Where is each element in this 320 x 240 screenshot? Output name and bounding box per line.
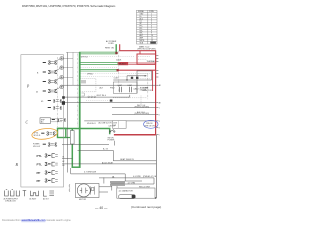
svg-text:POWER: POWER (108, 140, 115, 142)
pin numbers right of trunk (159, 84, 161, 137)
svg-text:3: 3 (45, 171, 48, 177)
dark component marks (62, 96, 65, 99)
connector row y81.5 (43, 78, 60, 86)
svg-text:3: 3 (54, 142, 57, 148)
svg-text:0.047: 0.047 (118, 85, 123, 87)
svg-text:(PWB AC 4-7 OH: (PWB AC 4-7 OH (143, 175, 157, 178)
capacitor capsule (119, 195, 136, 199)
wires circle to bus (63, 52, 79, 85)
wire black bus y85 (62, 84, 156, 86)
connector pin table (137, 10, 158, 44)
wire red trunk vertical (155, 50, 157, 135)
svg-text:SW: SW (113, 125, 116, 127)
PWB main board outline (21, 55, 64, 187)
wire red thick to switch (114, 134, 156, 136)
svg-text:FIRST ON: FIRST ON (105, 48, 114, 50)
svg-text:0.047: 0.047 (128, 85, 133, 87)
resistor on green line (70, 131, 74, 145)
dashed drop (113, 96, 147, 105)
svg-text:3: 3 (54, 70, 57, 76)
wire photocoupler line 1 (112, 107, 156, 109)
red label block (118, 62, 128, 65)
svg-text:4P-DL-07: 4P-DL-07 (33, 146, 40, 148)
svg-text:B+ 5V: B+ 5V (103, 149, 109, 151)
bottom component row (5, 190, 54, 197)
left small connector glyphs (68, 184, 71, 192)
small rows group2 (48, 99, 63, 105)
wires motor to transformer (99, 186, 112, 188)
svg-text:3: 3 (48, 142, 51, 148)
svg-text:3: 3 (53, 99, 56, 105)
wire green horizontal to power switch (57, 129, 109, 135)
dark cell last row (150, 41, 156, 43)
wire y158 (62, 157, 72, 159)
svg-text:1: 1 (159, 108, 160, 110)
svg-text:THERMAL: THERMAL (147, 60, 156, 63)
blue highlight ellipse (144, 120, 158, 128)
connector row y91.0 (43, 88, 60, 96)
AC noise killer box (113, 82, 137, 93)
svg-text:3: 3 (59, 106, 62, 112)
connector row y62.5 (43, 59, 60, 67)
svg-text:3: 3 (54, 61, 57, 67)
svg-text:45: 45 (36, 92, 38, 94)
transformer leads (111, 186, 113, 191)
wire green branch top (79, 52, 117, 54)
motor M1 (77, 184, 90, 197)
pin ticks on red trunk (156, 56, 158, 135)
power switch S1 (109, 130, 115, 133)
wire photocoupler line 2 (112, 114, 156, 116)
svg-text:3: 3 (45, 154, 48, 160)
svg-text:(Continued next page): (Continued next page) (131, 205, 161, 209)
svg-text:3: 3 (54, 89, 57, 95)
svg-text:4-BLU: 4-BLU (133, 88, 139, 90)
transformer T1 winding (111, 181, 125, 186)
relay box under red line (137, 71, 152, 80)
svg-text:AR-BLK: AR-BLK (119, 63, 127, 66)
svg-text:DNP7050, RM7101, UNP7050, PXM7: DNP7050, RM7101, UNP7050, PXM7070, PXM70… (22, 4, 116, 8)
svg-text:GB AT 7000/0.5V: GB AT 7000/0.5V (120, 158, 135, 161)
wire red drop below (152, 70, 154, 91)
harness dashed wires (81, 56, 148, 76)
svg-text:AC LINE 0-8 OV: AC LINE 0-8 OV (99, 122, 113, 125)
line y120.9 (84, 120, 112, 122)
ERP box row (40, 118, 51, 124)
bottom right box (117, 188, 155, 198)
svg-text:CAPACITOR: CAPACITOR (142, 89, 152, 92)
motor sub-compartments (91, 186, 95, 194)
svg-text:3: 3 (45, 179, 48, 185)
wire green trunk vertical (79, 52, 81, 168)
svg-text:4.7 OHM 10W: 4.7 OHM 10W (84, 171, 96, 173)
red thermal box 1 (137, 54, 156, 64)
svg-text:PTL: PTL (37, 163, 43, 167)
svg-text:5: 5 (159, 135, 160, 137)
wire black bus y102 (62, 101, 156, 103)
svg-text:PRI 2: PRI 2 (110, 87, 115, 89)
svg-text:(PHOTOCOUPLER): (PHOTOCOUPLER) (135, 106, 150, 108)
wire green branch second (79, 69, 118, 71)
wire AC inlet line (62, 163, 156, 165)
highlight ellipse orange (31, 127, 58, 140)
svg-text:MOTOR: MOTOR (79, 199, 87, 201)
svg-text:4TH 7-8: 4TH 7-8 (81, 56, 88, 58)
wire to PWB (99, 178, 154, 184)
svg-text:0R-07 1M -0: 0R-07 1M -0 (97, 95, 106, 97)
connector row y72.0 (43, 69, 60, 77)
wire y144 (62, 143, 109, 145)
svg-text:0.047: 0.047 (114, 77, 119, 79)
wire red lower harness (119, 69, 156, 71)
small pin squares under box2 (131, 77, 133, 79)
wire black bus y97 (62, 95, 130, 97)
svg-text:2: 2 (159, 115, 160, 117)
svg-text:4-5 CAPACITOR: 4-5 CAPACITOR (119, 189, 134, 192)
capacitor C2 (130, 87, 132, 92)
svg-text:[PRI] 1: [PRI] 1 (88, 73, 94, 75)
svg-text:3: 3 (54, 80, 57, 86)
junction circles (88, 96, 96, 98)
svg-text:3: 3 (45, 162, 48, 168)
svg-text:3: 3 (48, 89, 51, 95)
wire green link square to branch (66, 137, 73, 139)
svg-text:4-1-7WW: 4-1-7WW (133, 176, 141, 178)
svg-text:B1: B1 (63, 157, 65, 159)
wire B+5V (78, 150, 157, 160)
wire through noise killer (113, 79, 137, 81)
svg-text:Downloaded from www.Manualslib: Downloaded from www.Manualslib.com manua… (2, 219, 71, 222)
svg-text:(PHOTOCOUPLER): (PHOTOCOUPLER) (135, 113, 150, 115)
svg-text:PTL: PTL (37, 154, 43, 158)
green relay box (58, 128, 66, 137)
wire green second vertical (71, 128, 73, 168)
capacitor C1 (120, 87, 122, 92)
black trunk lower right (155, 135, 157, 198)
svg-text:3: 3 (48, 61, 51, 67)
dash-dot PWB boundaries (58, 51, 148, 128)
svg-text:PP: PP (37, 171, 41, 175)
svg-text:4-7 OHM: 4-7 OHM (128, 182, 136, 184)
dashed y100.6 (86, 100, 110, 102)
svg-text:3: 3 (48, 80, 51, 86)
wire red AC lead (120, 44, 156, 51)
svg-text:3: 3 (48, 70, 51, 76)
svg-text:— 40 —: — 40 — (95, 206, 108, 210)
wire green AC lead (115, 44, 117, 53)
svg-text:(PW OK OP): (PW OK OP) (145, 125, 156, 127)
edge circles (60, 57, 64, 89)
svg-text:3: 3 (159, 121, 160, 123)
wire green branch third (79, 62, 118, 64)
svg-text:3: 3 (46, 131, 49, 137)
wire green U bottom (72, 166, 81, 168)
motor box (75, 184, 99, 198)
svg-text:SP-07 4L: SP-07 4L (34, 135, 41, 137)
svg-text:CORD: CORD (108, 43, 114, 45)
wire vertical x67 (66, 53, 68, 173)
dashed sub box (80, 78, 96, 91)
wire black y121 (126, 120, 155, 122)
svg-text:3: 3 (53, 106, 56, 112)
svg-text:AC/DC INLET: AC/DC INLET (102, 162, 114, 165)
DON SW box (113, 121, 127, 129)
svg-text:PP: PP (37, 179, 41, 183)
svg-text:4: 4 (159, 127, 160, 129)
wire red outlined to trunk (128, 63, 155, 65)
svg-text:4P-08 K-01: 4P-08 K-01 (87, 123, 96, 125)
